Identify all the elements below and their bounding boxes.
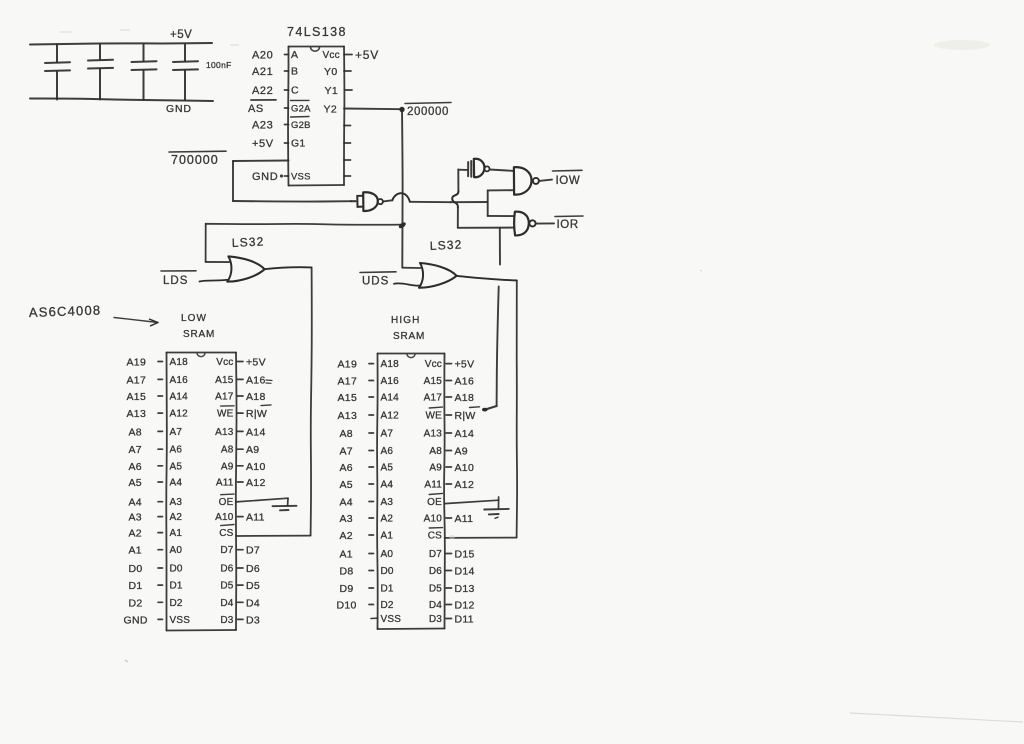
svg-text:A5: A5 [381,463,394,474]
svg-text:D7: D7 [246,545,260,557]
SRAM HIGH sram pin row A4 [340,479,475,491]
svg-text:A13: A13 [215,427,234,438]
svg-text:+5V: +5V [355,48,379,62]
wire IOR upper input [488,215,514,217]
svg-text:A8: A8 [340,428,353,440]
svg-text:A12: A12 [246,477,266,489]
svg-text:D10: D10 [337,600,357,612]
svg-text:A1: A1 [340,549,353,561]
SRAM HIGH sram pin row A16 [338,376,475,388]
capacitor C3 100nF [132,45,157,100]
svg-text:A11: A11 [455,513,474,525]
SRAM HIGH sram pin row D1 [340,583,475,595]
arrow to LOW SRAM [114,318,158,326]
capacitor C2 100nF [88,45,113,100]
label AS6C4008 [29,302,102,320]
svg-text:100nF: 100nF [206,60,232,70]
svg-text:A13: A13 [338,410,358,422]
U1 pin G2A / net AS [248,100,311,115]
wire IOR lower input [458,227,514,229]
wire net 700000 to U1 [233,160,289,163]
svg-text:A22: A22 [252,85,273,97]
U1 pin VCC to +5V [323,48,380,62]
svg-text:A15: A15 [338,392,358,404]
svg-text:G1: G1 [291,138,305,150]
svg-text:A11: A11 [246,512,265,524]
svg-text:D9: D9 [340,583,354,595]
wire LDS select to LOW CS [236,535,311,537]
SRAM LOW sram pin row A6 [129,444,260,456]
NAND gate G4 (IOR) [514,212,535,236]
svg-text:A5: A5 [170,461,183,472]
svg-text:A16: A16 [381,376,400,387]
svg-text:A4: A4 [340,497,353,509]
svg-text:A5: A5 [129,477,142,489]
SRAM HIGH sram pin row A18 [338,359,475,371]
U1 pin G1 / net +5V [252,138,305,151]
svg-text:D13: D13 [455,583,475,595]
SRAM LOW sram pin row A5 [129,461,266,473]
svg-text:HIGH: HIGH [391,315,420,326]
svg-text:Vcc: Vcc [323,50,340,61]
svg-text:A20: A20 [252,50,273,62]
svg-text:VSS: VSS [170,615,191,626]
wire G2 output to IOW gate [490,170,514,171]
SRAM LOW sram pin row A7 [129,426,266,438]
svg-text:A6: A6 [340,462,353,474]
svg-text:B: B [291,66,298,78]
svg-text:A14: A14 [246,426,266,438]
svg-text:A23: A23 [252,120,273,132]
svg-text:A9: A9 [429,463,442,474]
svg-text:D2: D2 [129,597,143,609]
svg-text:D6: D6 [220,564,233,575]
svg-text:LOW: LOW [181,313,207,324]
svg-text:+5V: +5V [455,359,475,371]
label net IOW [553,170,583,187]
svg-text:A3: A3 [381,497,394,508]
SRAM HIGH sram pin row A3 [340,493,443,508]
svg-text:AS6C4008: AS6C4008 [29,302,102,320]
SRAM HIGH sram pin row A6 [340,446,468,458]
svg-text:A10: A10 [215,512,234,523]
wire LDS gate output [265,267,312,269]
svg-text:CS: CS [428,531,442,542]
svg-text:A13: A13 [424,429,443,440]
SRAM HIGH sram pin row A12 [338,407,480,422]
svg-text:A4: A4 [129,497,142,509]
svg-text:+5V: +5V [252,138,274,150]
svg-text:A15: A15 [127,391,147,403]
svg-text:D6: D6 [429,566,442,577]
SRAM HIGH sram pin row VSS [381,614,474,626]
junction brace (select fanout) [452,191,458,207]
LOW SRAM extra mark (A16=) [266,380,272,383]
wire HIGH OE to ground [445,500,499,503]
SRAM LOW sram pin row A16 [127,374,266,386]
svg-text:Vcc: Vcc [425,359,442,370]
node 200000 junction dot [399,107,404,112]
svg-text:VSS: VSS [381,614,402,625]
SRAM HIGH sram pin row D2 [337,600,475,612]
svg-text:GND: GND [252,171,278,183]
svg-text:D15: D15 [455,549,475,561]
IC U1 74LS138 body [288,47,344,186]
svg-text:D3: D3 [429,614,442,625]
svg-text:SRAM: SRAM [183,329,215,340]
capacitor C4 100nF [173,45,198,100]
SRAM HIGH sram title [391,315,425,342]
svg-text:VSS: VSS [291,172,311,183]
svg-text:A3: A3 [340,513,353,525]
svg-text:A19: A19 [127,357,147,369]
svg-text:D2: D2 [381,600,394,611]
svg-text:A2: A2 [381,514,394,525]
svg-text:A7: A7 [129,444,142,456]
svg-text:D1: D1 [170,581,183,592]
svg-text:R|W: R|W [246,408,267,420]
capacitor C1 100nF [45,45,70,100]
wire IOW output [539,180,552,181]
U1 GND-VSS junction dot [280,174,283,177]
U1 pin Y0 [324,66,351,78]
U1 pin B / net A21 [252,66,298,79]
svg-text:A7: A7 [340,446,353,458]
svg-text:A0: A0 [381,549,394,560]
wire UDS select vertical [516,280,519,537]
OR gate G5 (LDS, LS32) [206,256,265,281]
svg-text:A15: A15 [215,375,234,386]
SRAM LOW sram pin row D2 [129,597,261,609]
SRAM LOW sram pin row A2 [129,512,265,524]
wire net 700000 vertical [232,161,234,201]
wire IOW lower input [488,189,514,191]
svg-text:A5: A5 [340,479,353,491]
U1 unused output stub [344,175,351,177]
svg-text:D11: D11 [455,614,474,626]
svg-text:A13: A13 [127,408,147,420]
svg-text:A0: A0 [170,545,183,556]
svg-text:D5: D5 [429,584,442,595]
svg-text:200000: 200000 [407,106,449,118]
SRAM LOW sram pin row D1 [129,580,261,592]
svg-text:Y0: Y0 [324,66,338,78]
SRAM HIGH sram pin row A5 [340,462,475,474]
svg-text:A21: A21 [252,66,273,78]
svg-text:GND: GND [166,103,192,115]
svg-text:IOW: IOW [556,175,581,187]
SRAM LOW sram pin row D0 [129,563,261,575]
U1 pin C / net A22 [252,85,299,98]
svg-text:A4: A4 [381,480,394,491]
IC U1 74LS138 label [287,25,347,39]
svg-text:A17: A17 [338,376,358,388]
label net 200000 [405,103,451,119]
svg-text:D4: D4 [246,597,260,609]
label net 700000 [169,151,226,167]
wire R/W vertical lower segment [497,287,499,407]
svg-text:700000: 700000 [171,153,219,167]
svg-text:D1: D1 [381,584,394,595]
svg-text:A8: A8 [221,445,234,456]
svg-text:D0: D0 [381,566,394,577]
OR gate G6 (UDS, LS32) [419,263,457,288]
ground symbol (LOW OE) [273,498,297,510]
SRAM HIGH sram pin row A0 [340,549,475,561]
label GND (rail) [166,103,192,115]
svg-text:IOR: IOR [557,219,579,231]
svg-text:A14: A14 [170,392,189,403]
svg-text:A1: A1 [170,528,183,539]
svg-text:WE: WE [425,411,442,422]
svg-text:A10: A10 [424,514,443,525]
svg-text:A14: A14 [455,428,475,440]
svg-text:CS: CS [219,528,233,539]
label 100nF [206,60,232,70]
svg-text:D7: D7 [429,549,442,560]
label LS32 (right) [429,237,463,253]
wire select to IOW/IOR column [487,190,489,216]
svg-text:A19: A19 [338,359,358,371]
svg-text:Y2: Y2 [324,104,338,116]
svg-text:R|W: R|W [455,410,476,422]
svg-text:AS: AS [248,103,264,115]
SRAM LOW sram pin row A18 [127,357,266,369]
NAND gate G1 (inverter) [351,192,383,211]
svg-text:D2: D2 [170,598,183,609]
svg-text:A2: A2 [129,528,142,540]
SRAM LOW sram pin row A0 [129,545,261,557]
wire UDS to gate input [394,283,420,285]
wire R/W to pin [482,406,497,412]
U1 pin Y1 [325,85,353,97]
svg-text:C: C [291,85,299,97]
svg-text:GND: GND [124,614,148,626]
svg-text:LDS: LDS [163,275,188,287]
svg-text:A7: A7 [381,429,394,440]
wire net 200000 vertical [401,110,404,268]
svg-text:A6: A6 [381,446,394,457]
svg-text:A12: A12 [455,479,475,491]
svg-text:OE: OE [427,497,442,508]
svg-text:A9: A9 [221,461,234,472]
svg-text:Y1: Y1 [325,85,339,97]
wire select down-branch [457,207,459,227]
svg-text:A18: A18 [170,357,189,368]
SRAM LOW sram title [181,313,215,340]
SRAM LOW sram pin row A1 [129,525,235,540]
wire R/W vertical upper segment [499,228,501,265]
svg-text:D5: D5 [220,581,233,592]
svg-text:A17: A17 [127,374,147,386]
svg-text:A18: A18 [381,359,400,370]
label net IOR [555,216,583,231]
ground symbol (HIGH OE) [484,497,509,519]
wire LOW OE to ground [236,498,288,502]
label net LDS [161,271,196,287]
svg-text:A18: A18 [455,392,475,404]
svg-text:A17: A17 [215,392,234,403]
svg-text:A11: A11 [424,480,442,491]
wire G1 output with hop over 200000 net [383,193,450,202]
svg-text:D3: D3 [246,614,260,626]
svg-text:A16: A16 [455,376,475,388]
power rail +5V (decoupling block) [30,43,212,45]
svg-text:A12: A12 [381,411,400,422]
svg-text:D6: D6 [246,563,260,575]
svg-text:Vcc: Vcc [216,357,233,368]
wire UDS select to HIGH CS [445,537,517,539]
svg-text:D12: D12 [455,600,475,612]
wire LDS select vertical [311,268,312,536]
svg-text:A1: A1 [381,531,394,542]
U1 pin Y2 [324,104,338,116]
svg-text:A16: A16 [246,374,266,386]
SRAM HIGH sram pin row A14 [338,392,475,404]
wire main select continues to gates [451,201,488,203]
svg-text:A8: A8 [429,446,442,457]
svg-text:A7: A7 [170,427,183,438]
svg-text:D14: D14 [455,566,475,578]
svg-text:A11: A11 [216,478,234,489]
SRAM LOW sram pin row VSS [124,614,261,626]
wire net 700000 to gate G1 input [233,200,351,203]
wire IOR output [536,222,554,224]
SRAM HIGH sram pin row A1 [340,528,443,542]
svg-text:D0: D0 [170,564,183,575]
svg-text:D0: D0 [129,563,143,575]
svg-text:A4: A4 [170,478,183,489]
SRAM LOW sram pin row A14 [127,391,266,403]
svg-text:+5V: +5V [170,29,192,41]
svg-text:A18: A18 [246,391,266,403]
svg-text:A1: A1 [129,545,142,557]
U1 unused output stub [344,125,351,127]
label +5V (rail) [170,29,192,41]
svg-text:WE: WE [217,409,234,420]
wire Y2 output to node 200000 [344,108,402,111]
SRAM LOW sram pin row A3 [129,494,235,509]
wire LDS to gate input [200,280,228,282]
svg-text:SRAM: SRAM [393,331,425,342]
svg-text:OE: OE [219,497,234,508]
svg-text:+5V: +5V [246,357,266,369]
svg-text:A3: A3 [170,497,183,508]
svg-text:A9: A9 [455,446,468,458]
U1 unused output stub [344,159,351,161]
svg-text:A17: A17 [424,393,443,404]
U1 pin A / net A20 [252,49,298,62]
svg-text:A2: A2 [340,530,353,542]
SRAM HIGH sram body [377,354,445,630]
svg-text:LS32: LS32 [231,234,265,250]
svg-text:G2B: G2B [291,120,311,131]
svg-text:A10: A10 [246,461,266,473]
svg-text:A14: A14 [381,393,400,404]
SRAM LOW sram pin row A12 [127,405,272,420]
label LS32 (left) [231,234,265,250]
svg-text:A9: A9 [246,444,259,456]
svg-text:D3: D3 [220,615,233,626]
SRAM LOW sram pin row A4 [129,477,266,489]
svg-text:D8: D8 [340,566,354,578]
svg-text:A10: A10 [455,462,475,474]
wire LDS gate top feed [205,224,207,262]
power rail GND (decoupling block) [30,98,213,101]
SRAM LOW sram body [166,353,236,631]
svg-text:D5: D5 [246,580,260,592]
svg-text:LS32: LS32 [429,237,463,253]
svg-text:A12: A12 [170,409,189,420]
svg-text:A16: A16 [170,375,189,386]
svg-text:A: A [291,49,298,61]
svg-text:D4: D4 [429,600,442,611]
wire select up-branch [457,170,459,192]
svg-text:A6: A6 [129,461,142,473]
svg-text:74LS138: 74LS138 [287,25,347,39]
svg-text:D1: D1 [129,580,143,592]
svg-text:A8: A8 [129,426,142,438]
svg-text:A3: A3 [129,512,142,524]
U1 unused output stub [344,142,351,144]
svg-text:UDS: UDS [362,276,389,288]
U1 pin VSS / net GND [252,171,311,183]
wire 200000 to UDS gate [402,267,420,269]
wire UDS gate output [457,276,517,281]
SRAM HIGH sram pin row D0 [340,566,475,578]
NAND gate G3 (IOW) [514,167,539,195]
SRAM HIGH sram pin row A2 [340,513,474,525]
U1 pin G2B / net A23 [252,117,311,132]
SRAM HIGH sram pin row A7 [340,428,475,440]
wire 200000 to LDS gate [206,223,403,226]
NAND gate G2 (inverter) [458,159,489,177]
label net UDS [360,272,396,288]
svg-text:A6: A6 [170,445,183,456]
svg-text:A15: A15 [424,376,443,387]
svg-text:A2: A2 [170,512,183,523]
node junction dot (200000/LDS) [398,221,407,229]
svg-text:G2A: G2A [291,104,311,115]
svg-text:D4: D4 [220,598,233,609]
HIGH SRAM VSS pin stub [371,617,378,619]
svg-text:D7: D7 [220,545,233,556]
